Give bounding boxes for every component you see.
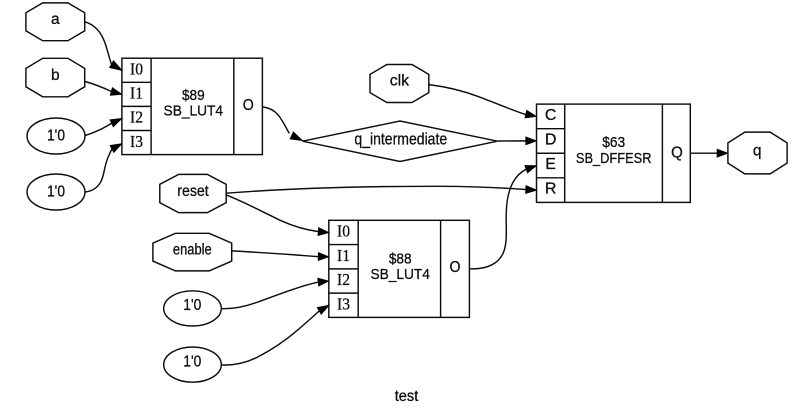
svg-text:I1: I1 [337,246,350,265]
svg-text:D: D [545,132,557,149]
wire U63.Q -> q [691,152,718,154]
svg-text:SB_DFFESR: SB_DFFESR [576,150,652,167]
constant 1'0 (drives U89.I2) [27,118,85,154]
svg-text:I0: I0 [130,60,143,79]
svg-text:I0: I0 [337,222,350,241]
svg-text:q: q [753,143,762,160]
wire clk -> U63.C [429,85,526,115]
constant 1'0 (drives U89.I3) [27,174,85,210]
wire U88.O -> U63.E [470,169,527,269]
wire 1'0 -> U89.I2 [85,123,112,135]
svg-text:a: a [51,11,60,28]
LUT cell U88 ($88 SB_LUT4) [329,220,470,317]
wire reset -> U88.I0 [226,195,318,232]
svg-text:$88: $88 [389,250,412,267]
svg-text:O: O [243,97,254,114]
wire enable -> U88.I1 [232,251,319,257]
input port a [26,3,85,41]
svg-text:I3: I3 [130,132,143,151]
svg-text:enable: enable [173,241,212,258]
svg-text:I1: I1 [130,84,143,103]
input port enable [153,233,232,271]
svg-text:test: test [395,388,419,405]
constant 1'0 (drives U88.I3) [164,347,222,382]
svg-text:1'0: 1'0 [47,128,65,145]
svg-text:$63: $63 [602,134,625,151]
svg-text:I2: I2 [337,270,350,289]
svg-text:b: b [51,67,60,84]
input port b [26,58,85,97]
svg-text:SB_LUT4: SB_LUT4 [370,266,430,283]
flip-flop cell U63 ($63 SB_DFFESR) [537,104,691,202]
svg-text:1'0: 1'0 [183,297,201,314]
net q_intermediate [303,121,498,162]
LUT cell U89 ($89 SB_LUT4) [122,58,263,154]
wire 1'0 -> U88.I2 [221,282,318,309]
svg-text:I2: I2 [130,108,143,127]
svg-text:reset: reset [177,183,209,200]
wire 1'0 -> U89.I3 [85,149,112,192]
wire reset -> U63.R [226,186,526,193]
wire 1'0 -> U88.I3 [221,311,319,365]
output port q [728,132,787,174]
svg-text:q_intermediate: q_intermediate [354,129,447,148]
wire a -> U89.I0 [85,22,112,64]
input port reset [160,174,226,212]
svg-text:I3: I3 [337,295,350,314]
svg-text:SB_LUT4: SB_LUT4 [164,103,224,120]
svg-text:R: R [545,181,557,198]
svg-text:E: E [545,156,556,173]
svg-text:1'0: 1'0 [47,184,65,201]
constant 1'0 (drives U88.I2) [164,291,222,326]
input port clk [370,65,429,103]
svg-text:O: O [450,259,461,276]
wire U89.O -> q_intermediate [263,107,290,133]
wire q_intermediate -> U63.D [498,140,526,142]
svg-text:$89: $89 [182,87,205,104]
svg-text:1'0: 1'0 [183,353,201,370]
svg-text:Q: Q [671,145,683,162]
svg-text:clk: clk [390,73,410,90]
svg-text:C: C [545,107,557,124]
wire b -> U89.I1 [85,82,111,92]
